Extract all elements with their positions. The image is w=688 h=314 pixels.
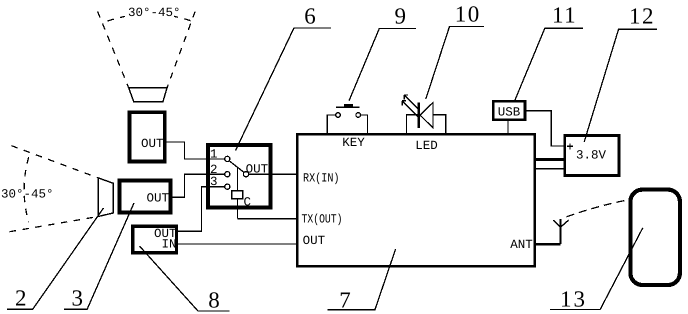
battery plus sign bbox=[567, 143, 573, 149]
svg-text:KEY: KEY bbox=[342, 136, 365, 150]
dashed RF link to phone bbox=[567, 200, 627, 217]
top cone angle label 30-45 deg bbox=[125, 4, 174, 18]
leader 2 bbox=[7, 208, 103, 309]
leader 3 bbox=[64, 203, 134, 309]
svg-text:6: 6 bbox=[304, 3, 316, 28]
svg-text:3: 3 bbox=[71, 286, 83, 311]
switch OUT circle bbox=[243, 172, 248, 177]
wire ANT stub bbox=[535, 243, 561, 246]
main module box 7 bbox=[297, 134, 534, 266]
svg-text:11: 11 bbox=[552, 2, 577, 27]
svg-text:30°-45°: 30°-45° bbox=[128, 6, 181, 20]
svg-text:USB: USB bbox=[498, 105, 521, 119]
LED 10 bracket bbox=[406, 115, 445, 133]
svg-text:ANT: ANT bbox=[510, 238, 533, 252]
terminal 3 circle bbox=[225, 184, 230, 189]
wire switch OUT to RX(IN) bbox=[249, 173, 297, 175]
wire box8 to main box OUT bbox=[178, 243, 296, 245]
svg-text:3: 3 bbox=[210, 175, 218, 189]
top IR beam cone left dashed line bbox=[98, 12, 129, 88]
leader 7 bbox=[327, 249, 395, 310]
svg-text:3.8V: 3.8V bbox=[576, 149, 607, 163]
leader 10 bbox=[426, 27, 484, 100]
pushbutton actuator bbox=[344, 104, 353, 107]
pushbutton left contact circle bbox=[336, 113, 341, 118]
svg-text:12: 12 bbox=[629, 4, 655, 29]
box 5 OUT (top IR emitter) bbox=[130, 112, 165, 161]
phone 13 rounded rect bbox=[630, 190, 680, 285]
svg-text:8: 8 bbox=[208, 288, 220, 313]
pushbutton bar bbox=[336, 106, 360, 108]
svg-text:OUT: OUT bbox=[146, 192, 169, 206]
box 8 OUT IN bbox=[133, 226, 177, 253]
svg-text:9: 9 bbox=[394, 3, 406, 28]
wire main box to battery lower bbox=[536, 168, 563, 170]
left lens 2 (trapezoid) bbox=[98, 178, 113, 217]
LED cathode bar bbox=[418, 103, 420, 128]
left cone lower dashed line bbox=[10, 217, 99, 232]
svg-text:7: 7 bbox=[339, 288, 351, 313]
svg-text:OUT: OUT bbox=[141, 137, 164, 151]
left cone upper dashed line bbox=[12, 146, 99, 178]
capacitor C body bbox=[232, 191, 243, 199]
wire box5 to switch terminal 1 bbox=[167, 142, 225, 159]
pushbutton KEY 9 bracket bbox=[327, 115, 367, 133]
svg-text:1: 1 bbox=[210, 148, 218, 162]
top lens (trapezoid) bbox=[129, 88, 168, 102]
svg-text:2: 2 bbox=[15, 286, 27, 311]
svg-text:OUT: OUT bbox=[303, 234, 326, 248]
leader 9 bbox=[349, 29, 416, 101]
antenna V arms bbox=[553, 220, 569, 227]
svg-text:IN: IN bbox=[161, 237, 176, 251]
top cone dashed angle arc bbox=[108, 14, 192, 21]
wire USB down to main box bbox=[507, 121, 509, 133]
pushbutton right contact circle bbox=[356, 113, 361, 118]
LED arrow 1 bbox=[404, 95, 418, 109]
svg-text:TX(OUT): TX(OUT) bbox=[302, 212, 343, 226]
leader 12 bbox=[584, 29, 657, 142]
terminal 1 circle bbox=[225, 156, 230, 161]
switch box 6 bbox=[208, 145, 271, 208]
LED triangle bbox=[420, 103, 433, 128]
top IR beam cone right dashed line bbox=[167, 12, 195, 88]
left cone dashed angle arc bbox=[24, 157, 29, 222]
svg-text:RX(IN): RX(IN) bbox=[303, 172, 340, 186]
USB box 11 bbox=[493, 101, 525, 120]
battery 12 box bbox=[565, 135, 619, 175]
switch arm wire bbox=[229, 161, 244, 173]
wire main box to battery upper bbox=[536, 158, 563, 161]
svg-text:LED: LED bbox=[415, 139, 438, 153]
box 3 OUT (IR receiver) bbox=[119, 181, 170, 213]
svg-text:30°-45°: 30°-45° bbox=[1, 188, 54, 202]
svg-text:C: C bbox=[244, 196, 252, 210]
wire C to TX(OUT) bbox=[237, 218, 296, 220]
terminal 2 circle bbox=[225, 172, 230, 177]
LED arrow 2 bbox=[402, 101, 418, 117]
leader 6 bbox=[236, 28, 332, 151]
wire box3 to switch terminal 2 bbox=[173, 174, 225, 197]
svg-text:10: 10 bbox=[455, 1, 481, 26]
antenna mast bbox=[559, 219, 561, 244]
wire USB to battery + bbox=[526, 111, 563, 146]
leader 8 bbox=[140, 246, 230, 311]
svg-text:13: 13 bbox=[560, 287, 587, 312]
wire box8 to switch terminal 3 bbox=[178, 187, 224, 232]
leader 13 bbox=[550, 228, 643, 310]
leader 11 bbox=[515, 28, 583, 100]
switch common vertical wire bbox=[236, 167, 238, 219]
